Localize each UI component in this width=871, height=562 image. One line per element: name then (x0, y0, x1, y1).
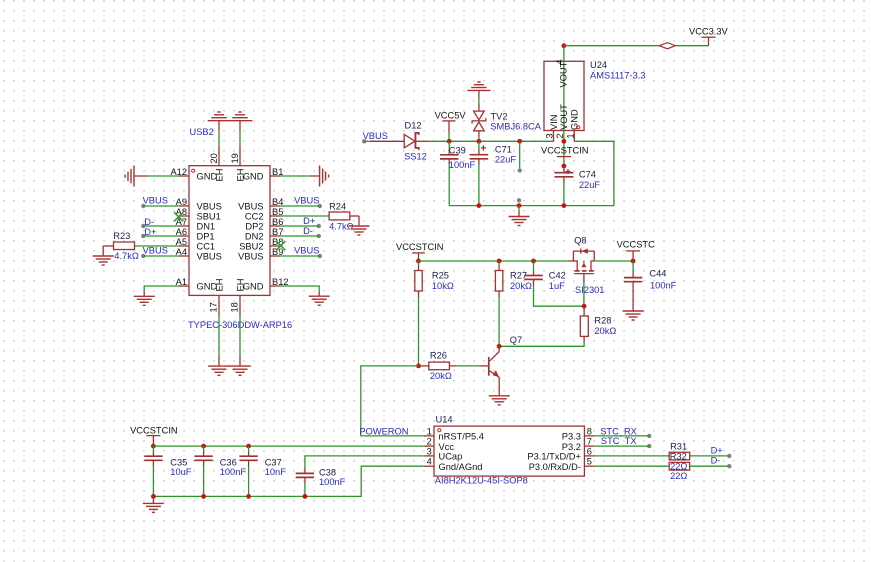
junction (R27 top) (497, 259, 502, 264)
svg-text:100nF: 100nF (220, 467, 247, 477)
junction (C36 bottom) (201, 494, 206, 499)
svg-text:2: 2 (427, 437, 432, 447)
svg-text:P3.2: P3.2 (562, 442, 581, 452)
svg-text:DP1: DP1 (197, 231, 215, 241)
svg-text:VCCSTCIN: VCCSTCIN (130, 426, 178, 436)
wire P3.3 STC_RX (595, 435, 650, 437)
svg-text:C36: C36 (220, 457, 237, 467)
svg-text:DN2: DN2 (245, 231, 264, 241)
junction (VOUT wire) (562, 139, 567, 144)
capacitor C37 10nF (239, 446, 286, 496)
ground (USB2 pin 18) (229, 357, 251, 376)
ground (A1) (134, 291, 155, 305)
junction (C38 bottom) (303, 494, 308, 499)
svg-text:C37: C37 (265, 457, 282, 467)
resistor R27 20k (495, 261, 532, 297)
node VCCSTC (flag) (617, 240, 656, 261)
svg-text:VBUS: VBUS (143, 195, 168, 205)
svg-text:20kΩ: 20kΩ (594, 326, 616, 336)
junction (flag / C35) (151, 444, 156, 449)
svg-text:VBUS: VBUS (143, 245, 168, 255)
wire Q8 gate down (583, 283, 585, 306)
ground (above TV2) (467, 82, 490, 97)
node VBUS (A4) (141, 245, 168, 258)
capacitor C35 10uF (144, 446, 192, 496)
svg-text:7: 7 (587, 437, 592, 447)
capacitor C42 1uF (524, 261, 566, 291)
junction (C37 top) (246, 444, 251, 449)
wire B4 VBUS (280, 205, 320, 207)
TVS diode TV2 SMBJ6.8CA (472, 104, 542, 142)
svg-text:nRST/P5.4: nRST/P5.4 (439, 432, 484, 442)
wire B1 to ground (280, 175, 310, 177)
ground (USB2 pin 19, top) (229, 112, 252, 131)
ground (bottom left rail) (143, 496, 164, 512)
svg-text:EH: EH (215, 279, 225, 292)
svg-text:C44: C44 (649, 268, 666, 278)
junction (C37 bottom) (246, 494, 251, 499)
node D- (A7) (141, 217, 154, 228)
svg-text:C39: C39 (449, 145, 466, 155)
svg-text:1: 1 (565, 133, 575, 138)
svg-text:C38: C38 (319, 467, 336, 477)
svg-text:C42: C42 (549, 270, 566, 280)
svg-text:VCCSTCIN: VCCSTCIN (541, 145, 589, 155)
junction (C74 bottom) (562, 203, 567, 208)
svg-text:GND: GND (243, 281, 264, 291)
no-connect X (A8) (174, 212, 183, 221)
svg-text:P3.0/RxD/D-: P3.0/RxD/D- (529, 462, 581, 472)
junction (gate / C42 / R28) (582, 304, 587, 309)
wire VBUS to D12 anode (364, 140, 370, 142)
svg-text:UCap: UCap (439, 452, 463, 462)
wire A4 VBUS (143, 255, 179, 257)
svg-text:TV2: TV2 (491, 112, 508, 122)
node VBUS (B9) (294, 245, 322, 258)
svg-text:CC2: CC2 (245, 211, 264, 221)
pin 18 (229, 295, 240, 315)
svg-text:DN1: DN1 (197, 221, 216, 231)
wire D12 cathode to VIN rail (430, 140, 554, 142)
svg-text:R24: R24 (329, 201, 346, 211)
wire Gnd/AGnd rail (153, 466, 423, 496)
svg-text:R32: R32 (670, 452, 687, 462)
svg-text:VBUS: VBUS (238, 201, 263, 211)
wire Q8 drain to VCCSTC (594, 260, 633, 262)
svg-text:3: 3 (427, 446, 432, 456)
wire R23 to A5 (135, 245, 180, 247)
capacitor C38 100nF (296, 467, 346, 496)
junction (C35 bottom) (151, 494, 156, 499)
USB2 pin designators (170, 167, 288, 287)
svg-text:100nF: 100nF (449, 160, 476, 170)
capacitor C44 100nF (624, 261, 677, 301)
svg-text:STC_RX: STC_RX (600, 426, 637, 436)
junction (flag / R25 / rail) (416, 259, 421, 264)
wire C42 to Q8 gate (534, 285, 585, 306)
svg-text:1uF: 1uF (549, 281, 565, 291)
svg-text:VBUS: VBUS (363, 131, 388, 141)
svg-text:STC_TX: STC_TX (601, 436, 637, 446)
junction (VCCSTC / C44) (631, 259, 636, 264)
svg-text:R25: R25 (432, 270, 449, 280)
svg-text:U14: U14 (436, 415, 453, 425)
svg-text:10uF: 10uF (170, 467, 192, 477)
ground (R24) (349, 226, 370, 235)
node D- (B7) (303, 226, 321, 238)
svg-text:U24: U24 (590, 60, 607, 70)
wire P3.1 to R31 (595, 455, 670, 457)
svg-text:3: 3 (545, 133, 555, 138)
svg-text:VCC5V: VCC5V (435, 111, 467, 121)
svg-text:R31: R31 (670, 441, 687, 451)
svg-text:R28: R28 (594, 316, 611, 326)
svg-text:19: 19 (230, 153, 240, 163)
svg-text:D-: D- (711, 456, 721, 466)
junction (C39 bottom rail corner) (477, 203, 482, 208)
junction (C36 top) (201, 444, 206, 449)
ground (Q7 emitter) (489, 387, 510, 405)
svg-text:10kΩ: 10kΩ (432, 281, 454, 291)
resistor R25 10k (415, 261, 454, 297)
svg-text:C74: C74 (579, 170, 596, 180)
svg-text:Q7: Q7 (510, 335, 522, 345)
junction (Q7 collector) (497, 344, 502, 349)
resistor R26 20k (419, 350, 457, 381)
wire A1 to ground (144, 286, 179, 291)
svg-text:22uF: 22uF (579, 180, 601, 190)
svg-text:Q8: Q8 (574, 236, 586, 246)
svg-text:P3.1/TxD/D+: P3.1/TxD/D+ (527, 452, 580, 462)
svg-text:USB2: USB2 (190, 127, 214, 137)
wire dangling stub with open end (518, 141, 522, 172)
ground (R23) (93, 256, 114, 265)
ground (B12) (309, 291, 330, 305)
node D+ (net label right) (711, 445, 732, 458)
svg-text:AMS1117-3.3: AMS1117-3.3 (590, 71, 645, 81)
svg-text:D12: D12 (405, 121, 422, 131)
wire GND pin1 to right rail (449, 141, 614, 205)
wire POWERON run (361, 366, 424, 436)
pin 17 (208, 295, 219, 315)
svg-text:VOUT: VOUT (559, 104, 569, 130)
resistor R28 20k (580, 306, 616, 341)
svg-text:D+: D+ (711, 445, 723, 455)
svg-text:R26: R26 (430, 350, 447, 360)
svg-text:100nF: 100nF (319, 477, 346, 487)
pin 20 (209, 146, 219, 165)
svg-text:P3.3: P3.3 (562, 432, 581, 442)
wire B6 D+ (280, 225, 319, 227)
svg-text:4: 4 (427, 457, 432, 467)
junction (VCC5V / C39 / rail) (447, 139, 452, 144)
wire R31 to D+ (690, 455, 730, 457)
ground (USB2 pin 20, top) (208, 112, 231, 131)
wire VCCSTCIN rail (419, 260, 569, 262)
svg-text:Gnd/AGnd: Gnd/AGnd (439, 462, 483, 472)
wire ground to pin 20 (218, 131, 220, 147)
junction (C42 top) (531, 259, 536, 264)
resistor R31 22R (669, 441, 690, 460)
wire ground to pin 19 (239, 131, 241, 147)
node VCCSTCIN (flag, mid) (396, 242, 444, 261)
node D- (net label right) (711, 456, 732, 469)
svg-text:100nF: 100nF (650, 281, 677, 291)
junction (stub on rail) (517, 139, 522, 144)
wire A9 VBUS (143, 205, 179, 207)
capacitor C71 22uF (polarized) (470, 141, 517, 205)
junction (R25 / R26 / POWERON) (416, 364, 421, 369)
pin 19 (230, 146, 240, 165)
transistor Q7 (NPN) (479, 335, 522, 387)
svg-text:VBUS: VBUS (197, 251, 222, 261)
op-amp U14 AI8H2K12U-45I-SOP8 (MCU) (424, 415, 595, 486)
USB2 inside pin names (197, 169, 264, 292)
svg-text:D-: D- (303, 226, 313, 236)
svg-text:2: 2 (555, 133, 565, 138)
svg-text:SBU1: SBU1 (197, 211, 221, 221)
no-connect X (B8) (276, 241, 285, 250)
capacitor C36 100nF (194, 446, 246, 496)
svg-text:20kΩ: 20kΩ (510, 281, 532, 291)
node STC_RX (net label) (600, 426, 651, 438)
svg-text:R23: R23 (113, 231, 130, 241)
node D+ (B6) (303, 216, 321, 228)
node D+ (A6) (141, 227, 156, 238)
svg-text:18: 18 (229, 302, 239, 312)
node VCCSTCIN (flag, bottom left) (130, 426, 178, 446)
node port diamond (659, 43, 675, 49)
svg-text:VCCSTC: VCCSTC (617, 240, 656, 250)
ground (C44) (623, 301, 644, 320)
svg-text:VCCSTCIN: VCCSTCIN (396, 242, 444, 252)
svg-text:VBUS: VBUS (294, 245, 319, 255)
junction (ground tap) (517, 203, 522, 208)
svg-text:SBU2: SBU2 (239, 241, 263, 251)
svg-text:CC1: CC1 (197, 241, 216, 251)
svg-text:SI2301: SI2301 (575, 285, 604, 295)
svg-text:VBUS: VBUS (294, 195, 319, 205)
wire diamond to flag (675, 45, 708, 47)
junction (C74 top) (562, 164, 567, 169)
svg-text:DP2: DP2 (245, 221, 263, 231)
node VBUS (net label, top left) (362, 131, 388, 144)
svg-text:Vcc: Vcc (439, 442, 455, 452)
node VCCSTCIN (flag at U24 VOUT) (541, 141, 589, 166)
wire R32 to D- (690, 465, 730, 467)
svg-text:1: 1 (427, 426, 432, 436)
connector USB2 TYPEC-306DDW-ARP16 (188, 127, 292, 330)
svg-text:10nF: 10nF (265, 467, 287, 477)
wire R28 to Q7 collector (499, 341, 584, 346)
node VBUS (B4) (294, 195, 322, 208)
wire UCap to C38 (305, 456, 424, 468)
svg-text:20: 20 (209, 153, 219, 163)
svg-text:17: 17 (208, 302, 218, 312)
svg-text:C71: C71 (495, 144, 512, 154)
svg-text:22Ω: 22Ω (670, 471, 687, 481)
svg-text:VOUT: VOUT (559, 61, 569, 87)
wire A12 to ground (148, 175, 179, 177)
power flag VCC5V (435, 111, 467, 142)
resistor R32 22R (669, 452, 690, 481)
resistor R23 4.7k (103, 231, 139, 261)
svg-text:22uF: 22uF (495, 155, 517, 165)
resistor R24 4.7k (329, 201, 359, 231)
node VBUS (A9) (141, 195, 168, 208)
svg-text:GND: GND (570, 109, 580, 130)
svg-text:VIN: VIN (549, 115, 559, 131)
svg-text:VBUS: VBUS (238, 251, 263, 261)
junction (TV2 / C71 / rail) (477, 139, 482, 144)
diode D12 SS12 (370, 121, 430, 162)
svg-text:C35: C35 (170, 457, 187, 467)
svg-text:POWERON: POWERON (359, 426, 408, 436)
svg-text:5: 5 (587, 457, 592, 467)
svg-text:SMBJ6.8CA: SMBJ6.8CA (490, 121, 541, 131)
wire open end above ground tap (517, 198, 521, 202)
wire A7 D- (143, 225, 179, 227)
node STC_TX (net label) (601, 436, 652, 448)
wire ground to TV2 (478, 97, 480, 104)
transistor Q8 SI2301 (P-MOSFET) (569, 236, 605, 296)
svg-text:VBUS: VBUS (197, 201, 222, 211)
wire pin 18 to ground (239, 316, 241, 357)
wire VOUT to VCC3.3V (564, 45, 660, 47)
svg-text:D+: D+ (303, 216, 315, 226)
svg-text:GND: GND (243, 171, 264, 181)
svg-text:EH: EH (215, 169, 225, 182)
USB2 right pins (270, 176, 280, 286)
ground (power section) (509, 206, 530, 226)
capacitor C74 22uF (polarized) (554, 166, 600, 206)
wire B12 to ground (280, 286, 319, 291)
wire B9 VBUS (280, 255, 320, 257)
wire Vcc rail (153, 445, 423, 447)
capacitor C39 100nF (440, 141, 475, 205)
svg-text:SS12: SS12 (404, 151, 427, 161)
svg-text:20kΩ: 20kΩ (430, 371, 452, 381)
ground (B1, rotated) (310, 166, 329, 187)
op-amp U24 AMS1117-3.3 (regulator) (544, 46, 645, 142)
svg-text:AI8H2K12U-45I-SOP8: AI8H2K12U-45I-SOP8 (435, 476, 528, 486)
svg-text:VCC3.3V: VCC3.3V (689, 26, 729, 36)
ground (USB2 pin 17) (208, 357, 230, 376)
wire B7 D- (280, 235, 319, 237)
wire R26 to Q7 base (456, 365, 479, 367)
svg-text:8: 8 (587, 426, 592, 436)
ground (A12, rotated) (125, 166, 148, 187)
wire P3.0 to R32 (595, 465, 670, 467)
wire R27 to Q7 collector (498, 297, 500, 346)
wire P3.2 STC_TX (595, 445, 650, 447)
svg-text:6: 6 (587, 446, 592, 456)
svg-text:4.7kΩ: 4.7kΩ (114, 251, 139, 261)
junction (U24 pin4 / VCC3.3V wire) (562, 43, 567, 48)
wire B5 to R24 (280, 215, 329, 217)
wire pin 17 to ground (218, 316, 220, 357)
wire A6 D+ (143, 235, 179, 237)
USB2 left pins (179, 176, 189, 286)
power flag VCC3.3V (689, 26, 729, 45)
wire R25 to R26 junction (418, 297, 420, 366)
